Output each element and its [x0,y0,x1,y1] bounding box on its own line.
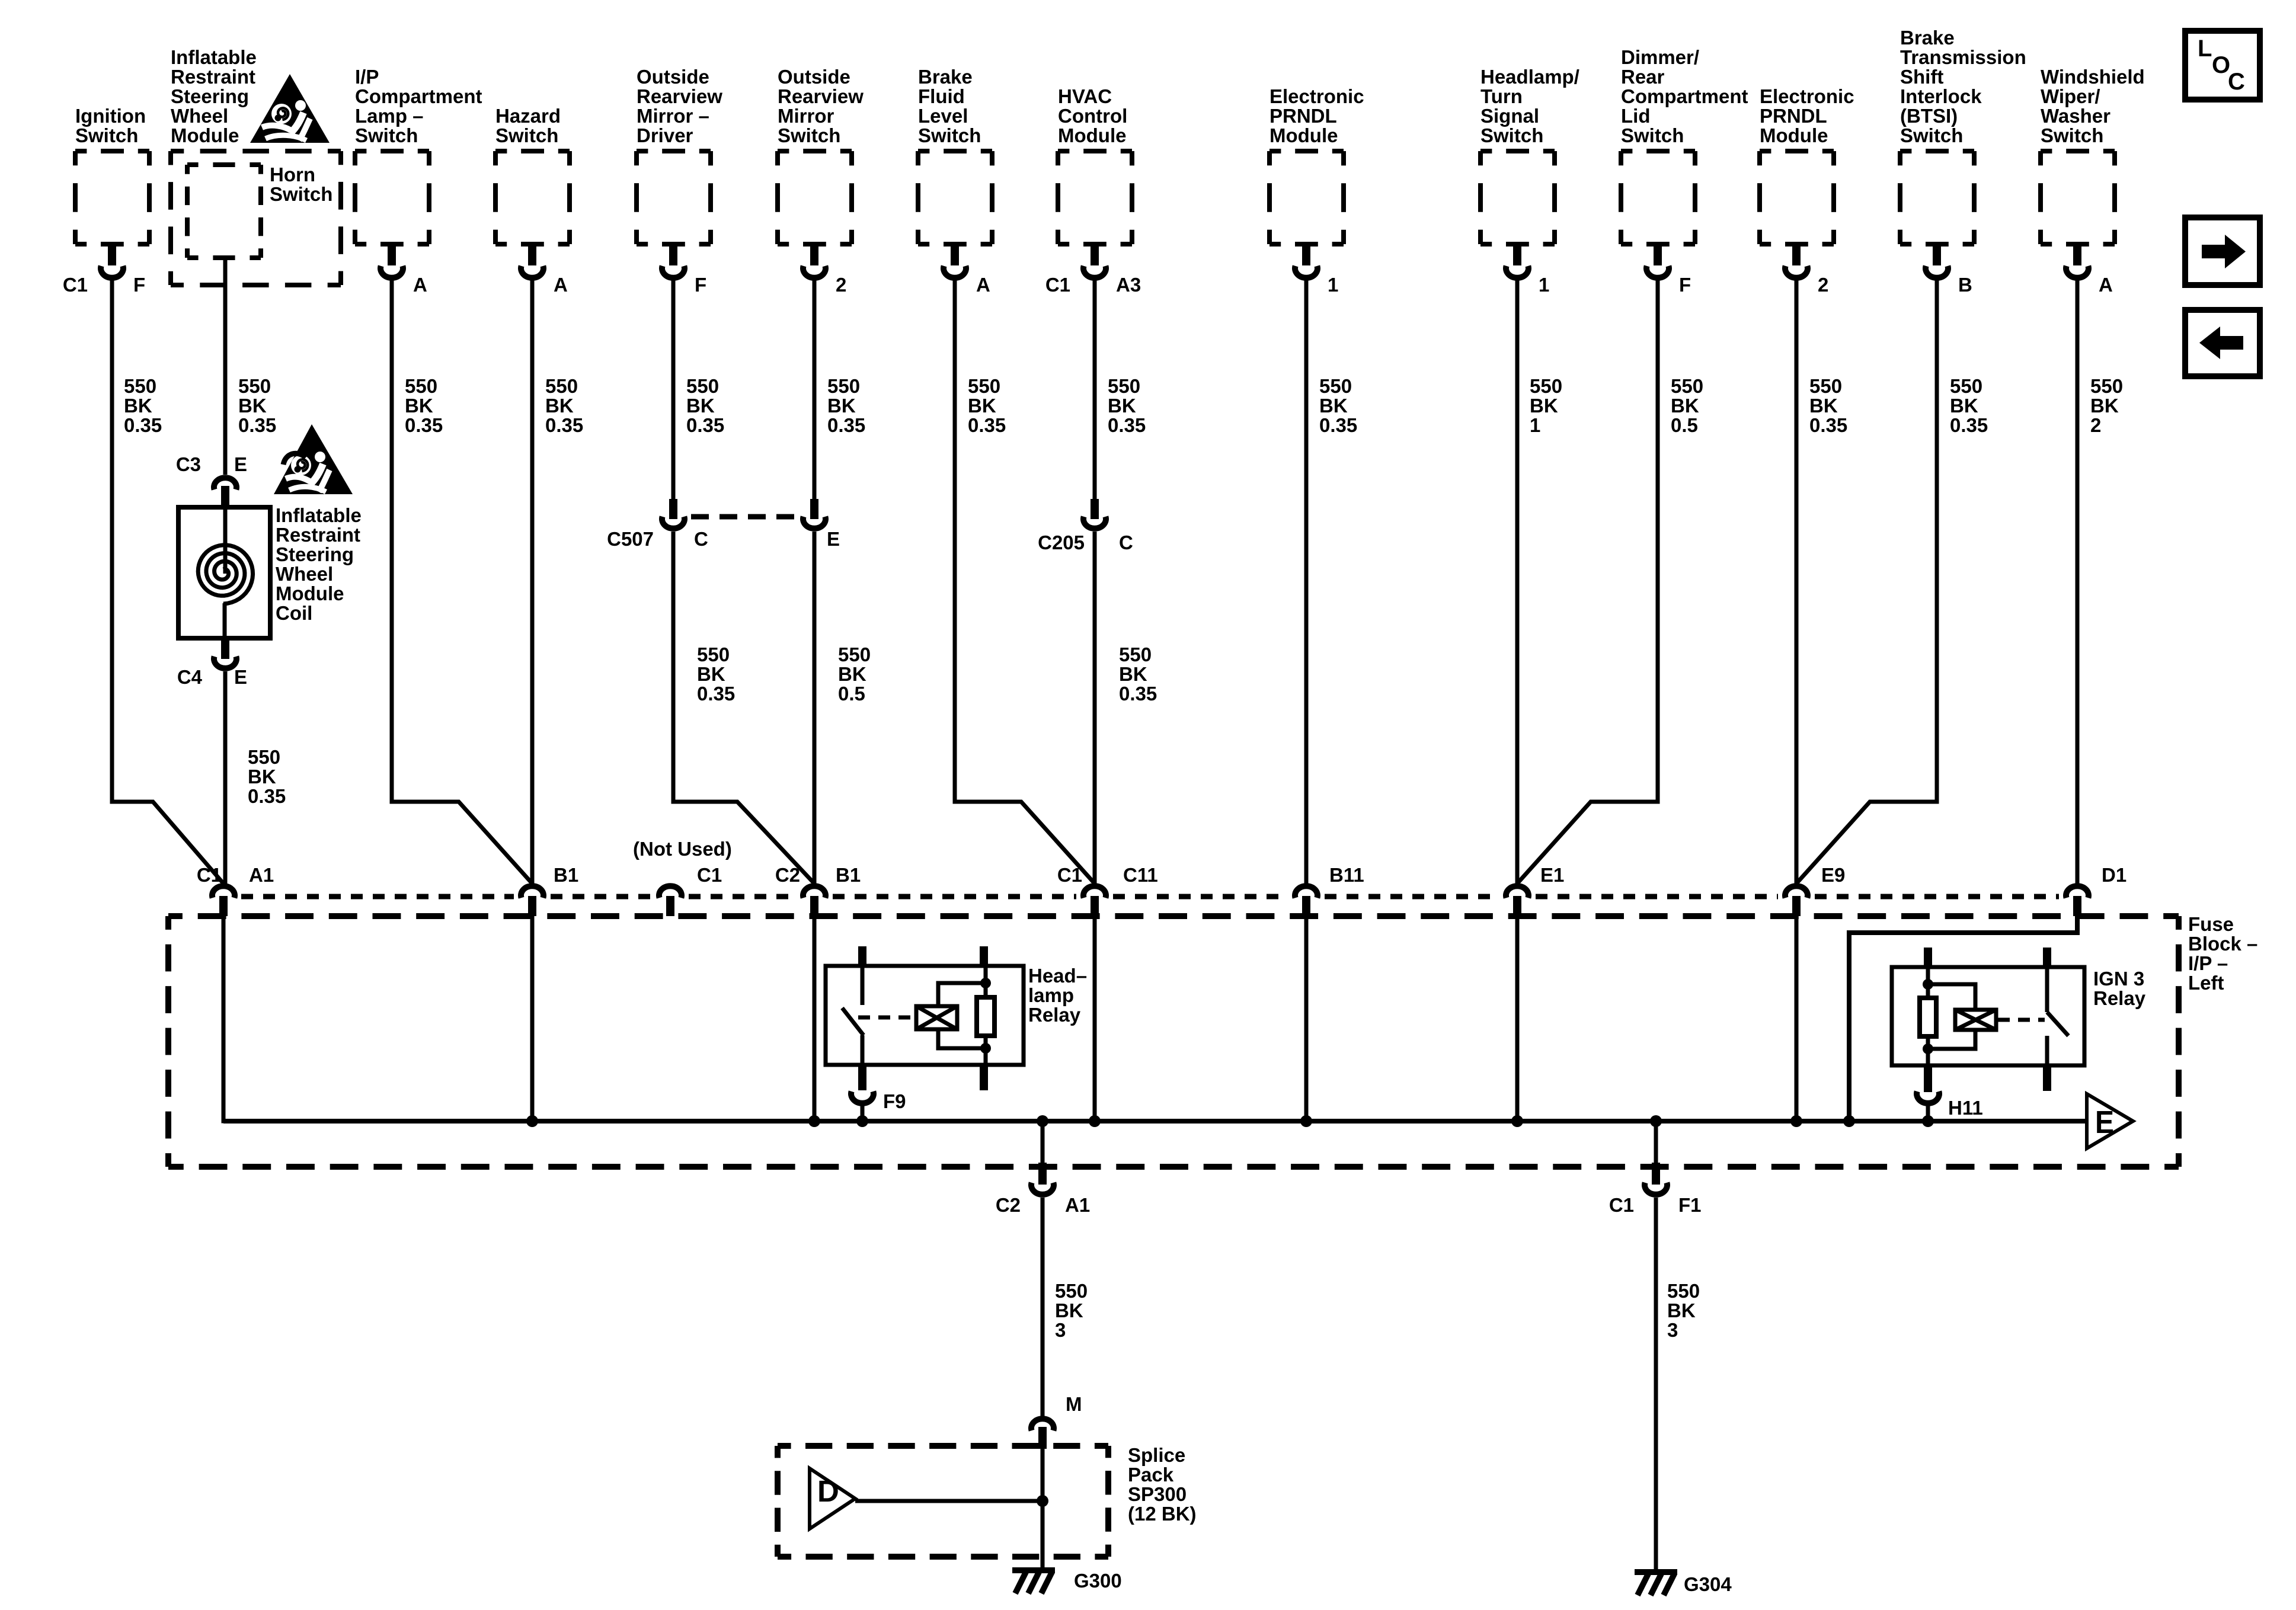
svg-text:A1: A1 [1065,1194,1090,1216]
svg-text:C205: C205 [1038,532,1085,553]
svg-text:BK: BK [124,395,152,417]
junction in splice pack [1037,1495,1048,1507]
wire: C507 to pin C2 (diagonal) [673,532,814,884]
wire label 550 BK 0.35 (column 12) [1809,375,1847,436]
svg-text:Steering: Steering [276,543,354,565]
svg-text:550: 550 [838,644,871,665]
svg-text:Switch: Switch [270,183,332,205]
svg-text:550: 550 [697,644,730,665]
inline connector M [1031,1419,1054,1449]
svg-text:0.35: 0.35 [124,414,162,436]
svg-text:BK: BK [1108,395,1136,417]
svg-text:IGN 3: IGN 3 [2093,968,2144,990]
svg-text:Module: Module [1058,124,1126,146]
svg-text:Compartment: Compartment [1621,85,1748,107]
IGN 3 relay resistor [1920,967,1936,1065]
junction on bus at x=1455 [856,1115,868,1127]
wire: C205 to pin C11 [1093,532,1097,884]
wire: I/P Compartment Lamp Switch to pin B1 (diagonal) [392,280,532,884]
svg-text:Inflatable: Inflatable [276,504,362,526]
svg-text:550: 550 [1671,375,1703,397]
svg-text:Signal: Signal [1480,105,1539,127]
svg-text:Electronic: Electronic [1760,85,1854,107]
svg-text:B1: B1 [554,864,578,886]
label: Fuse Block - I/P - Left [2188,913,2257,994]
component box: HVAC Control Module [1058,151,1132,278]
wire label 550 BK 0.35 (column 1) [124,375,162,436]
labels C4 / E [177,666,247,688]
svg-text:Wheel: Wheel [171,105,228,127]
svg-text:I/P: I/P [355,66,379,88]
svg-text:0.35: 0.35 [545,414,583,436]
svg-text:1: 1 [1530,414,1540,436]
svg-text:1: 1 [1328,274,1338,296]
fuse block pin D1 connector [2066,886,2089,916]
svg-text:550: 550 [1119,644,1152,665]
svg-text:550: 550 [124,375,156,397]
IGN 3 relay coil (X-box) [1955,1010,1996,1030]
pin label(s) of Outside Rearview Mirror - Driver [695,274,706,296]
svg-text:550: 550 [1055,1280,1088,1302]
svg-text:0.35: 0.35 [686,414,724,436]
svg-text:Module: Module [171,124,239,146]
svg-text:Level: Level [918,105,968,127]
wire: pin D1 drop and around IGN 3 relay [1849,916,2077,1121]
pin label(s) of Electronic PRNDL Module 2 [1818,274,1828,296]
svg-text:D1: D1 [2102,864,2126,886]
wire: Outside Rearview Mirror Driver down to C507 [671,280,676,501]
pin label(s) of Outside Rearview Mirror Switch [836,274,846,296]
fuse block pin B11 connector [1295,886,1318,916]
inflatable restraint steering wheel module coil (clockspring) [178,507,270,638]
svg-text:C2: C2 [996,1194,1021,1216]
svg-text:0.35: 0.35 [248,785,286,807]
wire: Outside Rearview Mirror Switch down to E [813,280,817,501]
svg-text:Wheel: Wheel [276,563,333,585]
fuse block dashed border (Fuse Block - I/P - Left) [168,916,2179,1167]
forward arrow box [2185,217,2260,285]
fuse block pin C2|B1 label [775,864,861,886]
airbag warning icon (top) [250,74,330,143]
svg-text:Relay: Relay [1028,1004,1081,1026]
airbag warning icon (coil) [274,424,353,494]
svg-text:BK: BK [1667,1299,1696,1321]
component box: Outside Rearview Mirror - Driver [637,151,711,278]
svg-text:Switch: Switch [778,124,840,146]
svg-text:F1: F1 [1678,1194,1702,1216]
svg-text:Steering: Steering [171,85,249,107]
svg-text:BK: BK [686,395,715,417]
svg-text:Lamp –: Lamp – [355,105,424,127]
pin label(s) of Brake Fluid Level Switch [976,274,990,296]
label: Electronic PRNDL Module 2 [1760,85,1854,146]
svg-text:0.35: 0.35 [1119,683,1157,705]
svg-text:BK: BK [1055,1299,1083,1321]
svg-text:550: 550 [827,375,860,397]
svg-text:Rearview: Rearview [637,85,722,107]
svg-text:C1: C1 [63,274,88,296]
svg-text:(Not Used): (Not Used) [633,838,732,860]
label: HVAC Control Module [1058,85,1127,146]
svg-text:SP300: SP300 [1128,1483,1187,1505]
svg-text:A: A [2099,274,2113,296]
wire label 550 BK 3 (left drop) [1055,1280,1088,1341]
svg-text:Electronic: Electronic [1269,85,1364,107]
fuse block pin E1 connector [1506,886,1528,916]
fuse block pin C1|A1 connector [212,886,235,916]
junction on bus at x=1847 [1089,1115,1101,1127]
label: Headlamp/Turn Signal Switch [1480,66,1579,146]
svg-text:Switch: Switch [918,124,981,146]
label: Horn Switch [270,164,332,205]
junction on bus at x=2560 [1511,1115,1523,1127]
svg-text:A: A [976,274,990,296]
splice pack arrow D [810,1468,855,1529]
svg-text:Block –: Block – [2188,933,2257,955]
labels C2 / A1 [996,1194,1090,1216]
svg-text:0.5: 0.5 [1671,414,1698,436]
svg-text:PRNDL: PRNDL [1760,105,1827,127]
svg-text:C: C [1119,532,1133,553]
svg-text:0.35: 0.35 [827,414,865,436]
svg-text:B1: B1 [836,864,861,886]
svg-text:BK: BK [1530,395,1558,417]
junction on bus at x=3031 [1790,1115,1802,1127]
wire: BTSI Switch to pin E9 (diagonal) [1796,280,1937,884]
svg-text:Transmission: Transmission [1900,46,2026,68]
back arrow box [2185,310,2260,376]
svg-text:B: B [1958,274,1972,296]
svg-text:Switch: Switch [75,124,138,146]
svg-text:Pack: Pack [1128,1464,1174,1486]
svg-text:Outside: Outside [778,66,850,88]
svg-text:550: 550 [1108,375,1140,397]
labels C3 / E [176,453,247,475]
svg-text:2: 2 [1818,274,1828,296]
IGN 3 relay internal junctions [1923,979,1933,1054]
svg-text:Outside: Outside [637,66,709,88]
label: Splice Pack SP300 (12 BK) [1128,1444,1197,1525]
wire: Electronic PRNDL Module to pin B11 [1304,280,1309,884]
headlamp relay resistor [977,966,994,1065]
wire: pin A1 drop + bus start corner [223,916,226,1121]
svg-text:Mirror –: Mirror – [637,105,709,127]
svg-text:Module: Module [1269,124,1338,146]
wire label 550 BK 3 (right drop) [1667,1280,1700,1341]
svg-text:Switch: Switch [1480,124,1543,146]
wire label 550 BK 0.35 (column 8) [1108,375,1146,436]
label: Head-lamp Relay [1028,965,1087,1026]
wire label 550 BK 0.35 (below C4) [248,746,286,807]
wire label 550 BK 0.35 (column 13) [1950,375,1988,436]
wire: C4 to fuse block pin A1 [223,671,228,884]
wire label 550 BK 0.5 (column 11) [1671,375,1703,436]
inline connector E (mirror switch) [803,499,826,529]
fuse block pin D1 label [2102,864,2126,886]
svg-text:Horn: Horn [270,164,315,185]
svg-text:Fluid: Fluid [918,85,965,107]
svg-text:Module: Module [276,582,344,604]
svg-text:BK: BK [697,663,725,685]
wire: bus to connector C1|F1 [1654,1121,1658,1164]
svg-text:Brake: Brake [1900,27,1955,49]
component box: I/P Compartment Lamp Switch [355,151,429,278]
svg-text:F: F [695,274,706,296]
svg-text:0.35: 0.35 [1950,414,1988,436]
svg-text:550: 550 [1809,375,1842,397]
svg-text:Switch: Switch [1621,124,1684,146]
wire label 550 BK 0.5 (below E) [838,644,871,705]
svg-text:Dimmer/: Dimmer/ [1621,46,1699,68]
svg-text:B11: B11 [1329,864,1364,886]
ground G300 [1012,1567,1055,1593]
svg-text:E9: E9 [1821,864,1845,886]
svg-text:Head–: Head– [1028,965,1087,987]
label G304 [1684,1573,1732,1595]
svg-text:3: 3 [1055,1319,1066,1341]
svg-text:C: C [694,528,708,550]
svg-text:M: M [1066,1393,1082,1415]
svg-text:Left: Left [2188,972,2224,994]
svg-text:E: E [827,528,840,550]
svg-text:Lid: Lid [1621,105,1650,127]
wire: pin drop at x=3031 to bus [1795,916,1799,1121]
component box: Electronic PRNDL Module [1269,151,1344,278]
wire: pin drop at x=2204 to bus [1304,916,1309,1121]
svg-text:BK: BK [2090,395,2119,417]
svg-text:F9: F9 [883,1090,906,1112]
fuse block pin C1|C11 connector [1083,886,1106,916]
svg-text:550: 550 [545,375,578,397]
svg-text:Module: Module [1760,124,1828,146]
headlamp relay box and pin stubs [826,946,1024,1090]
svg-text:Switch: Switch [1900,124,1963,146]
wire label 550 BK 0.35 (column 2) [238,375,276,436]
fuse block pin B1 label [554,864,578,886]
labels C1 / F1 [1609,1194,1702,1216]
label: Brake Fluid Level Switch [918,66,981,146]
svg-text:550: 550 [1667,1280,1700,1302]
pin label(s) of BTSI Switch [1958,274,1972,296]
svg-text:Turn: Turn [1480,85,1523,107]
wire label 550 BK 0.35 (column 5) [686,375,724,436]
svg-text:Mirror: Mirror [778,105,834,127]
svg-text:550: 550 [405,375,437,397]
label G300 [1074,1570,1122,1592]
svg-text:BK: BK [827,395,856,417]
inline connector C4/E [214,638,236,668]
label: Inflatable Restraint Steering Wheel Module Coil [276,504,362,624]
svg-text:Compartment: Compartment [355,85,482,107]
svg-text:550: 550 [968,375,1000,397]
fuse block pin C1|C11 label [1057,864,1158,886]
wire: pin drop at x=1374 to bus [813,916,817,1121]
wire: Brake Fluid Level Switch to pin C1/C11 (diagonal) [955,280,1095,884]
LOC legend box [2185,31,2260,100]
wire label 550 BK 0.35 (below C507) [697,644,735,705]
svg-text:G300: G300 [1074,1570,1122,1592]
inline connector C507/C [662,499,685,529]
wire label 550 BK 0.35 (column 9) [1319,375,1357,436]
svg-text:Brake: Brake [918,66,973,88]
wire: HVAC Control Module down to C205 [1093,280,1097,501]
label: Windshield Wiper/Washer Switch [2041,66,2145,146]
label: Inflatable Restraint Steering Wheel Module [171,46,257,146]
svg-text:BK: BK [1950,395,1978,417]
svg-text:G304: G304 [1684,1573,1732,1595]
wire label 550 BK 2 (column 14) [2090,375,2123,436]
junction on bus at x=2794 [1650,1115,1662,1127]
svg-text:BK: BK [248,766,276,788]
svg-text:E1: E1 [1540,864,1564,886]
junction on bus at x=3120 [1843,1115,1855,1127]
headlamp relay internal junctions [980,978,991,1054]
wire: pin drop at x=2560 to bus [1515,916,1520,1121]
svg-text:0.35: 0.35 [1809,414,1847,436]
svg-text:BK: BK [968,395,996,417]
component box: Hazard Switch [495,151,570,278]
svg-text:BK: BK [238,395,267,417]
svg-text:A1: A1 [249,864,274,886]
IGN 3 relay coil parallel branch [1928,984,1975,1049]
component box: Headlamp/Turn Signal Switch [1480,151,1555,278]
component box: Brake Fluid Level Switch [918,151,992,278]
wire: Hazard Switch to pin B1 [530,280,535,884]
svg-text:0.35: 0.35 [238,414,276,436]
svg-text:550: 550 [238,375,271,397]
svg-text:Hazard: Hazard [495,105,561,127]
headlamp relay coil (X-box) [916,1006,957,1029]
svg-text:F: F [1679,274,1691,296]
svg-text:550: 550 [2090,375,2123,397]
pin label(s) of Windshield Wiper/Washer Switch [2099,274,2113,296]
svg-text:A: A [554,274,568,296]
wire: E to pin B1 (C2/B1) [813,532,817,884]
svg-text:Fuse: Fuse [2188,913,2234,935]
off-page arrow E (bus exit) [2087,1094,2133,1148]
label: Electronic PRNDL Module [1269,85,1364,146]
fuse block pin C1 (Not Used) connector [659,886,682,916]
wire: bus to connector C2|A1 [1041,1121,1045,1164]
fuse block pin C1 (Not Used) label [697,864,722,886]
connector H11 (relay to bus) [1917,1065,1939,1121]
svg-text:Restraint: Restraint [276,524,360,546]
svg-text:lamp: lamp [1028,984,1074,1006]
svg-text:Windshield: Windshield [2041,66,2145,88]
label H11 [1948,1097,1983,1119]
wire label 550 BK 0.35 (below C205) [1119,644,1157,705]
wire: C2|A1 down to M [1041,1198,1045,1416]
svg-text:L: L [2198,36,2212,62]
svg-text:E: E [2095,1105,2114,1140]
svg-text:BK: BK [1671,395,1699,417]
wire: Electronic PRNDL Module 2 to pin E9 [1795,280,1799,884]
component box: Electronic PRNDL Module 2 [1760,151,1834,278]
svg-text:C507: C507 [607,528,654,550]
wire label 550 BK 0.35 (column 3) [405,375,443,436]
svg-text:BK: BK [1119,663,1147,685]
svg-text:A3: A3 [1116,274,1141,296]
svg-text:Switch: Switch [2041,124,2103,146]
IGN 3 relay switch [2047,967,2068,1065]
splice pack dashed box [778,1446,1108,1557]
label: Outside Rearview Mirror - Driver [637,66,722,146]
label: Dimmer/Rear Compartment Lid Switch [1621,46,1748,146]
svg-text:F: F [133,274,145,296]
svg-text:Rearview: Rearview [778,85,864,107]
pin label(s) of Electronic PRNDL Module [1328,274,1338,296]
svg-text:I/P –: I/P – [2188,952,2228,974]
wire: pin drop at x=898 to bus [530,916,535,1121]
label: Outside Rearview Mirror Switch [778,66,864,146]
svg-text:Control: Control [1058,105,1127,127]
svg-text:E: E [234,453,247,475]
svg-text:Shift: Shift [1900,66,1943,88]
svg-text:C3: C3 [176,453,201,475]
svg-text:H11: H11 [1948,1097,1983,1119]
svg-text:C2: C2 [775,864,800,886]
pin label(s) of Ignition Switch [63,274,145,296]
wire: Dimmer/Rear Compartment Lid Switch to pin E1 (diagonal) [1517,280,1658,884]
svg-text:0.35: 0.35 [1108,414,1146,436]
svg-text:Switch: Switch [495,124,558,146]
fuse block pin E1 label [1540,864,1564,886]
svg-text:C: C [2228,69,2245,95]
label M [1066,1393,1082,1415]
svg-text:Inflatable: Inflatable [171,46,257,68]
svg-text:2: 2 [2090,414,2101,436]
svg-text:Washer: Washer [2041,105,2110,127]
dashed link C507 to E [691,514,797,520]
wire: M to G300 through splice pack [1041,1449,1045,1570]
svg-text:C11: C11 [1123,864,1158,886]
svg-text:3: 3 [1667,1319,1678,1341]
wire: D arrow to splice junction [855,1499,1043,1503]
svg-text:HVAC: HVAC [1058,85,1112,107]
svg-text:BK: BK [1319,395,1348,417]
fuse block pin B1 connector [521,886,543,916]
svg-text:C1: C1 [1045,274,1070,296]
svg-text:2: 2 [836,274,846,296]
labels C507 / C [607,528,708,550]
component box: Outside Rearview Mirror Switch [778,151,852,278]
svg-text:BK: BK [838,663,866,685]
headlamp relay switch [842,966,864,1065]
headlamp relay coil parallel branch [938,983,986,1048]
headlamp relay actuation dashed line [858,1016,914,1020]
junction on bus at x=1759 [1037,1115,1048,1127]
svg-text:BK: BK [545,395,574,417]
svg-text:PRNDL: PRNDL [1269,105,1337,127]
fuse block pin E9 connector [1785,886,1808,916]
IGN 3 relay box and pin stubs [1892,948,2084,1091]
junction on bus at x=2204 [1300,1115,1312,1127]
bus wire inside fuse block [223,1119,2087,1124]
label: I/P Compartment Lamp Switch [355,66,482,146]
pin label(s) of Hazard Switch [554,274,568,296]
connector F9 (relay to bus) [851,1065,874,1121]
svg-text:550: 550 [248,746,280,768]
svg-text:550: 550 [1950,375,1982,397]
svg-text:Restraint: Restraint [171,66,255,88]
svg-text:C1: C1 [697,864,722,886]
svg-text:0.35: 0.35 [405,414,443,436]
connector C1|F1 [1645,1163,1667,1195]
label: Hazard Switch [495,105,561,146]
svg-text:Wiper/: Wiper/ [2041,85,2100,107]
inline connector C205/C [1083,499,1106,529]
component box: Dimmer/Rear Compartment Lid Switch [1621,151,1695,278]
